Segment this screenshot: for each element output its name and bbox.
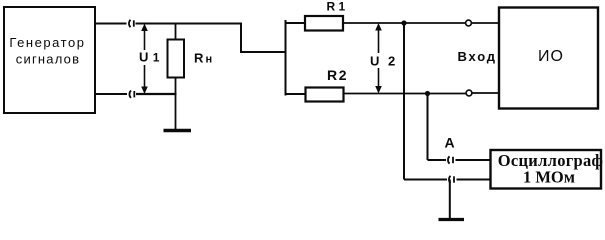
- wire: R2 branch left: [286, 93, 307, 95]
- svg-text:А: А: [445, 135, 455, 151]
- connector terminal upper (point A): [448, 156, 453, 163]
- wire: into IO bottom: [472, 92, 499, 94]
- wire: horizontal to lower oscilloscope terminal: [404, 179, 447, 181]
- wire: R1 right rail: [343, 22, 466, 24]
- wire: into IO top: [472, 22, 500, 24]
- svg-text:U: U: [139, 50, 148, 65]
- wire: generator bottom output: [95, 93, 127, 95]
- resistor R1: [305, 16, 343, 31]
- wire: mid link to splitter: [240, 51, 286, 53]
- svg-text:Вход: Вход: [458, 49, 497, 64]
- svg-text:R: R: [327, 0, 336, 14]
- ground under oscilloscope input: [439, 218, 465, 221]
- svg-text:1 МОм: 1 МОм: [523, 168, 575, 187]
- generator box: [4, 7, 95, 113]
- wire: R1 branch left: [286, 22, 306, 24]
- IO box: [499, 8, 598, 109]
- terminal circle top (to IO): [466, 20, 472, 26]
- label U2: [370, 54, 395, 69]
- svg-text:U: U: [370, 54, 379, 69]
- wire: lower terminal to oscilloscope: [457, 179, 492, 181]
- ground under Rn: [164, 129, 192, 132]
- wire: vertical from bottom junction down: [427, 94, 429, 161]
- label Rn: [194, 51, 212, 66]
- label R1: [327, 0, 346, 14]
- svg-text:2: 2: [388, 54, 395, 69]
- wire: vertical from top junction down: [403, 23, 405, 180]
- svg-text:Генератор: Генератор: [9, 35, 85, 50]
- connector terminal on top wire: [129, 20, 134, 27]
- wire: R2 right rail: [344, 93, 467, 95]
- junction dot top: [401, 20, 406, 25]
- svg-text:ИО: ИО: [538, 48, 564, 65]
- label R2: [327, 67, 347, 83]
- wire: top rail to corner: [136, 23, 242, 25]
- connector terminal on bottom wire: [129, 91, 134, 98]
- svg-text:сигналов: сигналов: [16, 52, 80, 67]
- resistor R2: [306, 88, 344, 102]
- node: splitter vertical: [285, 20, 287, 96]
- wire: upper terminal to oscilloscope: [456, 159, 492, 161]
- svg-text:2: 2: [339, 67, 347, 83]
- voltage arrow U2: [375, 23, 382, 94]
- wire: bottom rail to Rn junction: [136, 93, 177, 95]
- voltage arrow U1: [141, 24, 148, 95]
- wire: corner down: [240, 23, 242, 53]
- svg-text:R: R: [194, 51, 204, 66]
- connector terminal lower: [449, 176, 454, 183]
- resistor Rn: [168, 24, 185, 130]
- wire: ground stem: [449, 180, 451, 219]
- oscilloscope box: [491, 150, 602, 189]
- wire: horizontal to upper oscilloscope terminal: [428, 159, 447, 161]
- svg-text:н: н: [206, 54, 213, 66]
- junction dot bottom: [425, 91, 430, 96]
- label U1: [139, 50, 160, 65]
- svg-text:R: R: [327, 67, 337, 83]
- terminal circle bottom (to IO): [466, 90, 472, 96]
- svg-text:1: 1: [339, 0, 346, 14]
- wire: generator top output: [95, 23, 127, 25]
- svg-text:1: 1: [153, 51, 160, 65]
